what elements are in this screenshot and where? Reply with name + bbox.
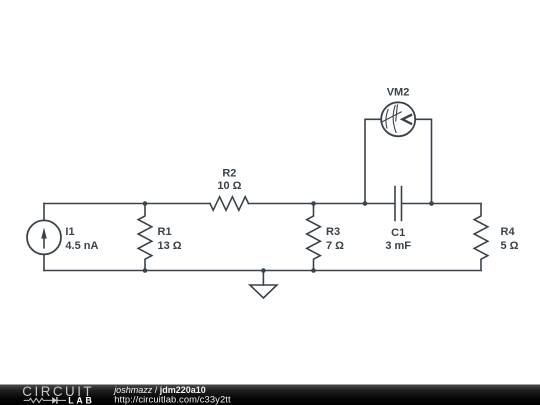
label VM2 designator <box>387 87 410 99</box>
svg-text:LAB: LAB <box>68 395 94 405</box>
wire top-middle from R2 to C1 <box>249 203 395 205</box>
node dot top R1 <box>143 201 148 206</box>
CircuitLab logo wordmark CIRCUIT <box>22 384 94 399</box>
svg-text:VM2: VM2 <box>387 87 410 99</box>
wire bottom from I1 to R4 <box>44 270 481 272</box>
credit line author/title <box>113 385 206 395</box>
svg-text:10 Ω: 10 Ω <box>217 180 241 192</box>
label C1 value 3 mF <box>385 240 411 252</box>
CircuitLab logo diode <box>52 397 66 404</box>
label R2 value 10 ohm <box>217 180 241 192</box>
wire left (I1 branch) <box>43 204 45 271</box>
label R3 value 7 ohm <box>326 240 344 252</box>
wire voltmeter left lead <box>365 119 381 203</box>
label R3 designator <box>326 226 340 238</box>
svg-text:R3: R3 <box>326 226 340 238</box>
label R1 value 13 ohm <box>158 240 182 252</box>
CircuitLab logo resistor zigzag <box>24 398 52 402</box>
wire top-left from I1 to R2 <box>44 203 210 205</box>
svg-text:http://circuitlab.com/c33y2tt: http://circuitlab.com/c33y2tt <box>114 394 231 405</box>
current source I1 <box>27 220 61 254</box>
svg-text:R1: R1 <box>158 226 172 238</box>
svg-text:3 mF: 3 mF <box>385 240 411 252</box>
label R4 value 5 ohm <box>501 240 519 252</box>
footer bar <box>0 385 540 405</box>
ground <box>250 271 277 299</box>
node dot top R3 <box>311 201 316 206</box>
svg-text:C1: C1 <box>391 227 405 239</box>
label C1 designator <box>391 227 405 239</box>
credit line url <box>114 394 231 405</box>
svg-text:5 Ω: 5 Ω <box>501 240 519 252</box>
wire voltmeter right lead <box>415 119 431 203</box>
node dot top VM left <box>363 201 368 206</box>
resistor R2 <box>210 197 248 211</box>
resistor R3 <box>307 204 321 271</box>
svg-text:R2: R2 <box>222 168 236 180</box>
label R1 designator <box>158 226 172 238</box>
CircuitLab logo wordmark LAB <box>68 395 94 405</box>
label R2 designator <box>222 168 236 180</box>
node dot top VM right <box>429 201 434 206</box>
resistor R1 <box>138 204 152 271</box>
node dot bottom ground <box>261 268 266 273</box>
svg-text:R4: R4 <box>501 226 516 238</box>
label I1 value 4.5 nA <box>65 240 98 252</box>
label R4 designator <box>501 226 516 238</box>
node dot bottom R3 <box>311 268 316 273</box>
svg-text:I1: I1 <box>65 226 74 238</box>
capacitor C1 <box>395 187 402 221</box>
svg-text:4.5 nA: 4.5 nA <box>65 240 98 252</box>
resistor R4 <box>474 204 488 271</box>
node dot bottom R1 <box>143 268 148 273</box>
label I1 designator <box>65 226 74 238</box>
voltmeter VM2 <box>381 102 415 136</box>
svg-text:13 Ω: 13 Ω <box>158 240 182 252</box>
wire top-right from C1 to R4 <box>402 203 481 205</box>
svg-text:7 Ω: 7 Ω <box>326 240 344 252</box>
